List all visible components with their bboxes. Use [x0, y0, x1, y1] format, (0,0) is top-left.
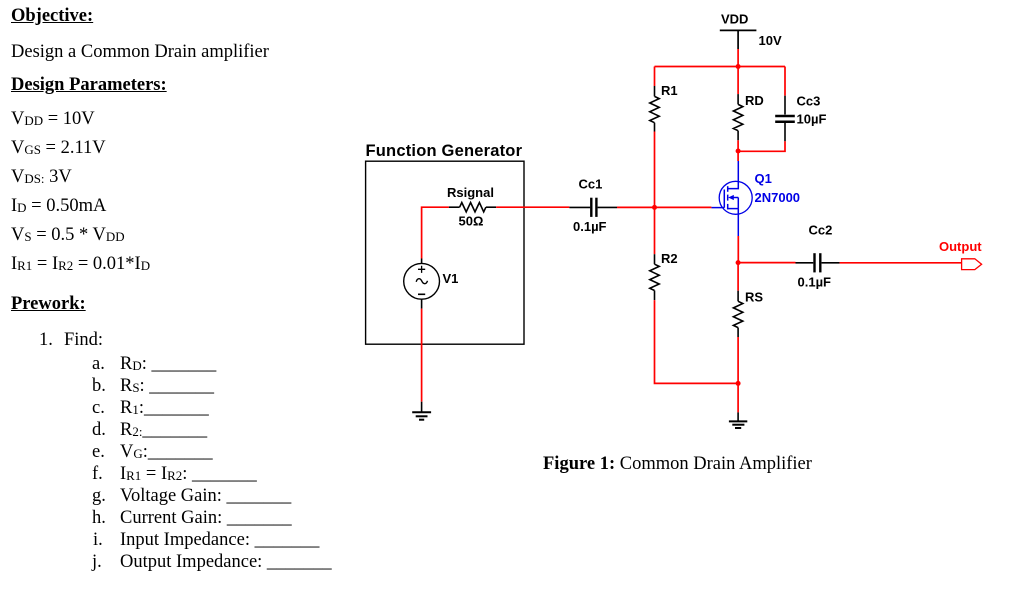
function generator box — [366, 161, 524, 344]
wire top to RD — [737, 67, 739, 95]
svg-text:Output: Output — [939, 239, 982, 254]
wire gate — [617, 206, 711, 208]
wire Cc3 branch — [784, 67, 786, 96]
node drain junction — [736, 149, 741, 154]
wire source to node — [737, 236, 739, 263]
svg-text:Cc2: Cc2 — [809, 223, 833, 238]
resistor Rsignal — [449, 203, 496, 212]
wire V1 to ground — [421, 309, 423, 402]
param VDS — [11, 167, 72, 187]
svg-text:RS: RS — [745, 290, 763, 305]
wire top to R1 — [654, 67, 656, 87]
capacitor Cc3 — [775, 96, 795, 142]
node gate junction — [652, 205, 657, 210]
wire VDD stem — [737, 49, 739, 67]
heading Design Parameters — [11, 75, 167, 95]
item h — [92, 508, 106, 528]
item j — [92, 552, 102, 572]
capacitor Cc2 — [796, 253, 840, 272]
param ID — [11, 196, 106, 216]
svg-text:Q1: Q1 — [755, 171, 772, 186]
item i — [93, 530, 103, 550]
item b — [92, 376, 106, 396]
transistor Q1 2N7000 — [711, 161, 752, 236]
svg-text:2N7000: 2N7000 — [755, 190, 801, 205]
svg-text:0.1µF: 0.1µF — [798, 275, 832, 290]
wire V1 riser — [422, 207, 449, 258]
capacitor Cc1 — [569, 198, 617, 217]
svg-text:Cc3: Cc3 — [797, 94, 821, 109]
output port arrow — [962, 259, 982, 270]
node source junction — [736, 260, 741, 265]
item c — [92, 398, 105, 418]
svg-text:V1: V1 — [443, 271, 459, 286]
ground main — [729, 412, 747, 428]
wire R1 to gate node — [654, 132, 656, 208]
svg-text:Rsignal: Rsignal — [447, 185, 494, 200]
wire source node to Cc2 — [738, 262, 795, 264]
heading Prework — [11, 294, 86, 314]
figure caption — [543, 454, 812, 474]
item d — [92, 420, 106, 440]
param VDD — [11, 109, 95, 129]
svg-text:VDD: VDD — [721, 12, 748, 27]
heading Objective — [11, 6, 93, 26]
svg-text:50Ω: 50Ω — [459, 214, 484, 229]
wire source node to RS — [737, 263, 739, 291]
wire Cc2 to output — [840, 262, 962, 264]
svg-text:0.1µF: 0.1µF — [573, 219, 607, 234]
resistor RD — [733, 94, 742, 140]
wire gate node to R2 — [654, 207, 656, 254]
svg-text:10V: 10V — [759, 33, 782, 48]
wire bottom to ground — [737, 383, 739, 412]
node bottom junction — [736, 381, 741, 386]
item g — [92, 486, 106, 506]
resistor R1 — [650, 86, 659, 132]
param IR1 — [11, 254, 150, 274]
resistor R2 — [650, 254, 659, 300]
power symbol VDD — [720, 30, 757, 49]
source V1 — [404, 259, 440, 309]
svg-text:RD: RD — [745, 93, 764, 108]
svg-text:Cc1: Cc1 — [579, 177, 603, 192]
resistor RS — [733, 291, 742, 337]
list 1 Find — [39, 330, 53, 350]
svg-text:Function Generator: Function Generator — [366, 142, 523, 160]
node VDD rail junction — [736, 64, 741, 69]
svg-text:10µF: 10µF — [797, 112, 827, 127]
svg-text:R2: R2 — [661, 251, 678, 266]
wire drain red stub — [737, 151, 739, 161]
ground function generator — [412, 402, 431, 420]
wire RD to drain node — [737, 140, 739, 151]
wire Rsignal to Cc1 — [496, 206, 569, 208]
item e — [92, 442, 105, 462]
wire Cc3 to drain node — [738, 141, 785, 151]
wire top rail — [655, 66, 786, 68]
body line — [11, 42, 269, 62]
param VS — [11, 225, 125, 245]
param VGS — [11, 138, 106, 158]
wire R2 down to bottom rail — [655, 300, 739, 383]
wire RS to bottom rail — [737, 337, 739, 383]
svg-text:R1: R1 — [661, 83, 678, 98]
item a — [92, 354, 105, 374]
item f — [92, 464, 103, 484]
